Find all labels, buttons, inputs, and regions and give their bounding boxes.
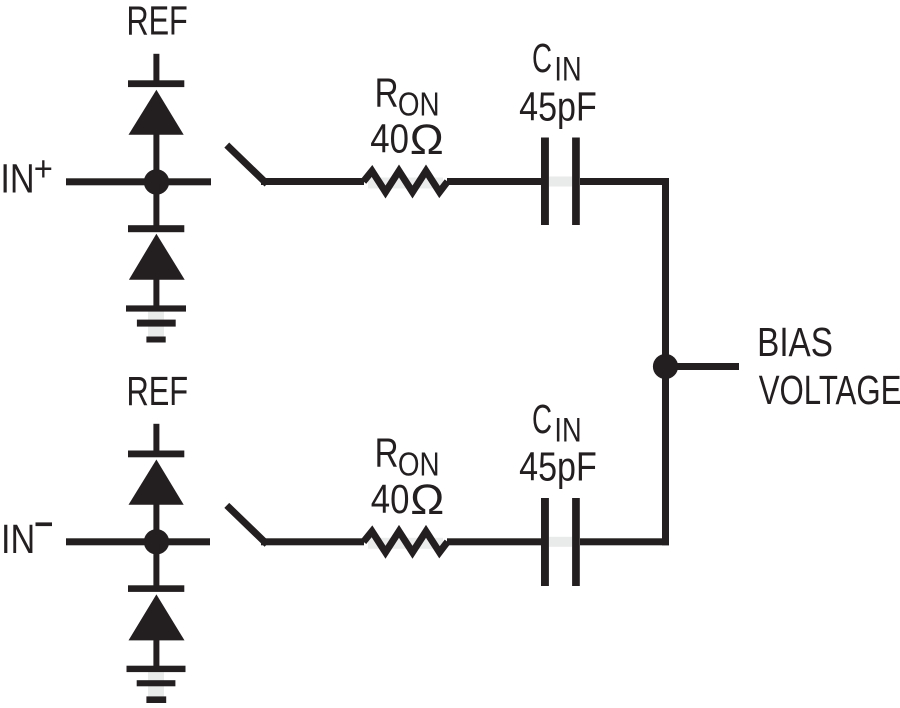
switch S2 blade (open) <box>229 508 264 542</box>
wire: REF stub (bottom diode cathode lead) <box>153 424 159 454</box>
label R_ON (bottom) <box>375 429 440 483</box>
svg-text:IN: IN <box>0 156 34 201</box>
node REF (bottom label) <box>126 368 188 414</box>
resistor R_ON top zigzag <box>364 171 448 192</box>
wire: D4 anode to ground <box>153 640 159 668</box>
capacitor C_IN top left plate <box>541 138 549 226</box>
svg-text:C: C <box>532 397 552 443</box>
wire: vertical bus between corners <box>662 178 669 545</box>
artifact band behind resistor R_ON top <box>368 178 443 189</box>
label 45pF (bottom) <box>519 444 597 490</box>
diode D3 (IN- to REF) triangle <box>129 460 184 505</box>
junction dot at IN- node <box>144 529 169 554</box>
svg-text:+: + <box>34 149 53 188</box>
svg-text:REF: REF <box>126 0 187 44</box>
label 40Ω (top) <box>370 116 443 163</box>
wire: resistor to capacitor (bottom) <box>447 538 542 545</box>
label C_IN (bottom) <box>532 397 582 449</box>
svg-text:BIAS: BIAS <box>757 319 833 365</box>
wire: capacitor to bus corner (top) <box>580 178 669 185</box>
svg-text:C: C <box>532 36 552 82</box>
wire: switch to resistor (bottom) <box>261 538 364 545</box>
svg-text:45pF: 45pF <box>519 444 597 490</box>
diode D4 cathode bar <box>128 585 184 592</box>
switch S1 blade (open) <box>229 148 264 182</box>
wire: IN+ node down to D2 cathode <box>153 182 159 229</box>
capacitor C_IN top right plate <box>572 138 580 226</box>
svg-text:R: R <box>375 429 399 475</box>
capacitor C_IN bottom right plate <box>572 498 580 586</box>
diode D3 cathode bar <box>128 451 184 458</box>
label 45pF (top) <box>519 83 597 129</box>
ground symbol (bottom) <box>127 666 186 703</box>
wire: D2 anode to ground <box>153 279 159 309</box>
wire: IN- node down to D4 cathode <box>153 542 159 589</box>
svg-text:REF: REF <box>126 368 188 414</box>
ground symbol (top) <box>126 305 186 342</box>
ground artifact column top <box>148 311 164 341</box>
junction dot at IN+ node <box>144 169 169 194</box>
wire: resistor to capacitor <box>447 178 542 185</box>
node IN- label <box>1 516 52 561</box>
svg-text:Ω: Ω <box>410 116 444 163</box>
diode D2 (ground to IN+) triangle <box>129 234 185 280</box>
wire: switch to resistor <box>261 178 364 185</box>
wire: D1 anode to IN+ node <box>153 134 159 184</box>
label C_IN (top) <box>532 36 582 88</box>
svg-text:Ω: Ω <box>410 477 444 524</box>
node IN+ label <box>0 149 53 201</box>
ground artifact column bottom <box>148 672 164 700</box>
diode D1 (IN+ to REF) triangle <box>129 90 184 135</box>
svg-text:IN: IN <box>1 516 35 561</box>
label BIAS VOLTAGE <box>757 319 900 413</box>
wire: REF stub (top diode cathode lead) <box>153 54 159 84</box>
svg-text:40: 40 <box>370 117 409 162</box>
artifact band in capacitor gap top <box>549 177 572 187</box>
svg-text:45pF: 45pF <box>519 83 597 129</box>
diode D2 cathode bar <box>128 225 184 232</box>
svg-text:R: R <box>375 69 399 115</box>
svg-text:40: 40 <box>371 477 410 522</box>
diode D1 cathode bar <box>128 80 184 87</box>
label R_ON (top) <box>375 69 440 123</box>
wire: D3 anode to IN- node <box>153 504 159 544</box>
node REF (top label) <box>126 0 187 44</box>
diode D4 (ground to IN-) triangle <box>129 594 185 640</box>
wire: capacitor to bus corner (bottom) <box>580 538 669 545</box>
wire: bias node lead <box>666 363 740 370</box>
wire: IN+ lead <box>66 178 211 185</box>
wire: IN- lead <box>66 538 210 545</box>
artifact band in capacitor gap bottom <box>549 537 572 547</box>
label 40Ω (bottom) <box>371 477 444 524</box>
junction dot at bias node <box>653 354 678 379</box>
capacitor C_IN bottom left plate <box>541 498 549 586</box>
resistor R_ON bottom zigzag <box>364 531 448 552</box>
svg-text:VOLTAGE: VOLTAGE <box>759 367 900 413</box>
artifact band behind resistor R_ON bottom <box>368 538 443 549</box>
